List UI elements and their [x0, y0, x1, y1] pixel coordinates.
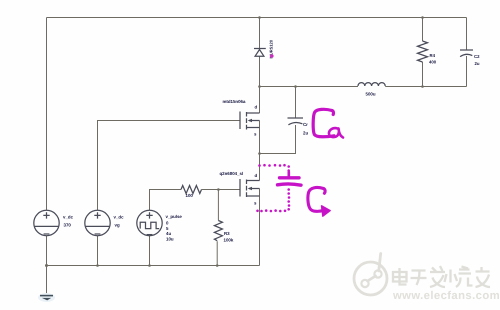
svg-text:mtd15n06a: mtd15n06a	[223, 99, 246, 104]
svg-text:v_dc: v_dc	[63, 215, 74, 220]
svg-text:2u: 2u	[303, 131, 308, 136]
svg-text:370: 370	[64, 223, 72, 228]
svg-text:400: 400	[429, 60, 437, 65]
svg-text:d: d	[255, 105, 258, 110]
svg-text:C2: C2	[474, 54, 480, 59]
svg-text:500u: 500u	[366, 92, 376, 97]
svg-text:www.elecfans.com: www.elecfans.com	[392, 290, 500, 302]
svg-text:4u: 4u	[166, 231, 171, 236]
svg-text:100: 100	[186, 193, 194, 198]
svg-text:Cr: Cr	[303, 122, 308, 127]
svg-text:R4: R4	[430, 53, 436, 58]
svg-text:v_dc: v_dc	[114, 215, 125, 220]
svg-text:d: d	[255, 173, 258, 178]
svg-text:R3: R3	[224, 231, 230, 236]
svg-text:100k: 100k	[224, 238, 234, 243]
svg-text:v_pulse: v_pulse	[166, 214, 183, 219]
svg-text:q2n6804_sl: q2n6804_sl	[220, 171, 244, 176]
svg-text:10u: 10u	[166, 236, 174, 241]
svg-text:2u: 2u	[475, 61, 480, 66]
svg-text:vg: vg	[115, 223, 120, 228]
